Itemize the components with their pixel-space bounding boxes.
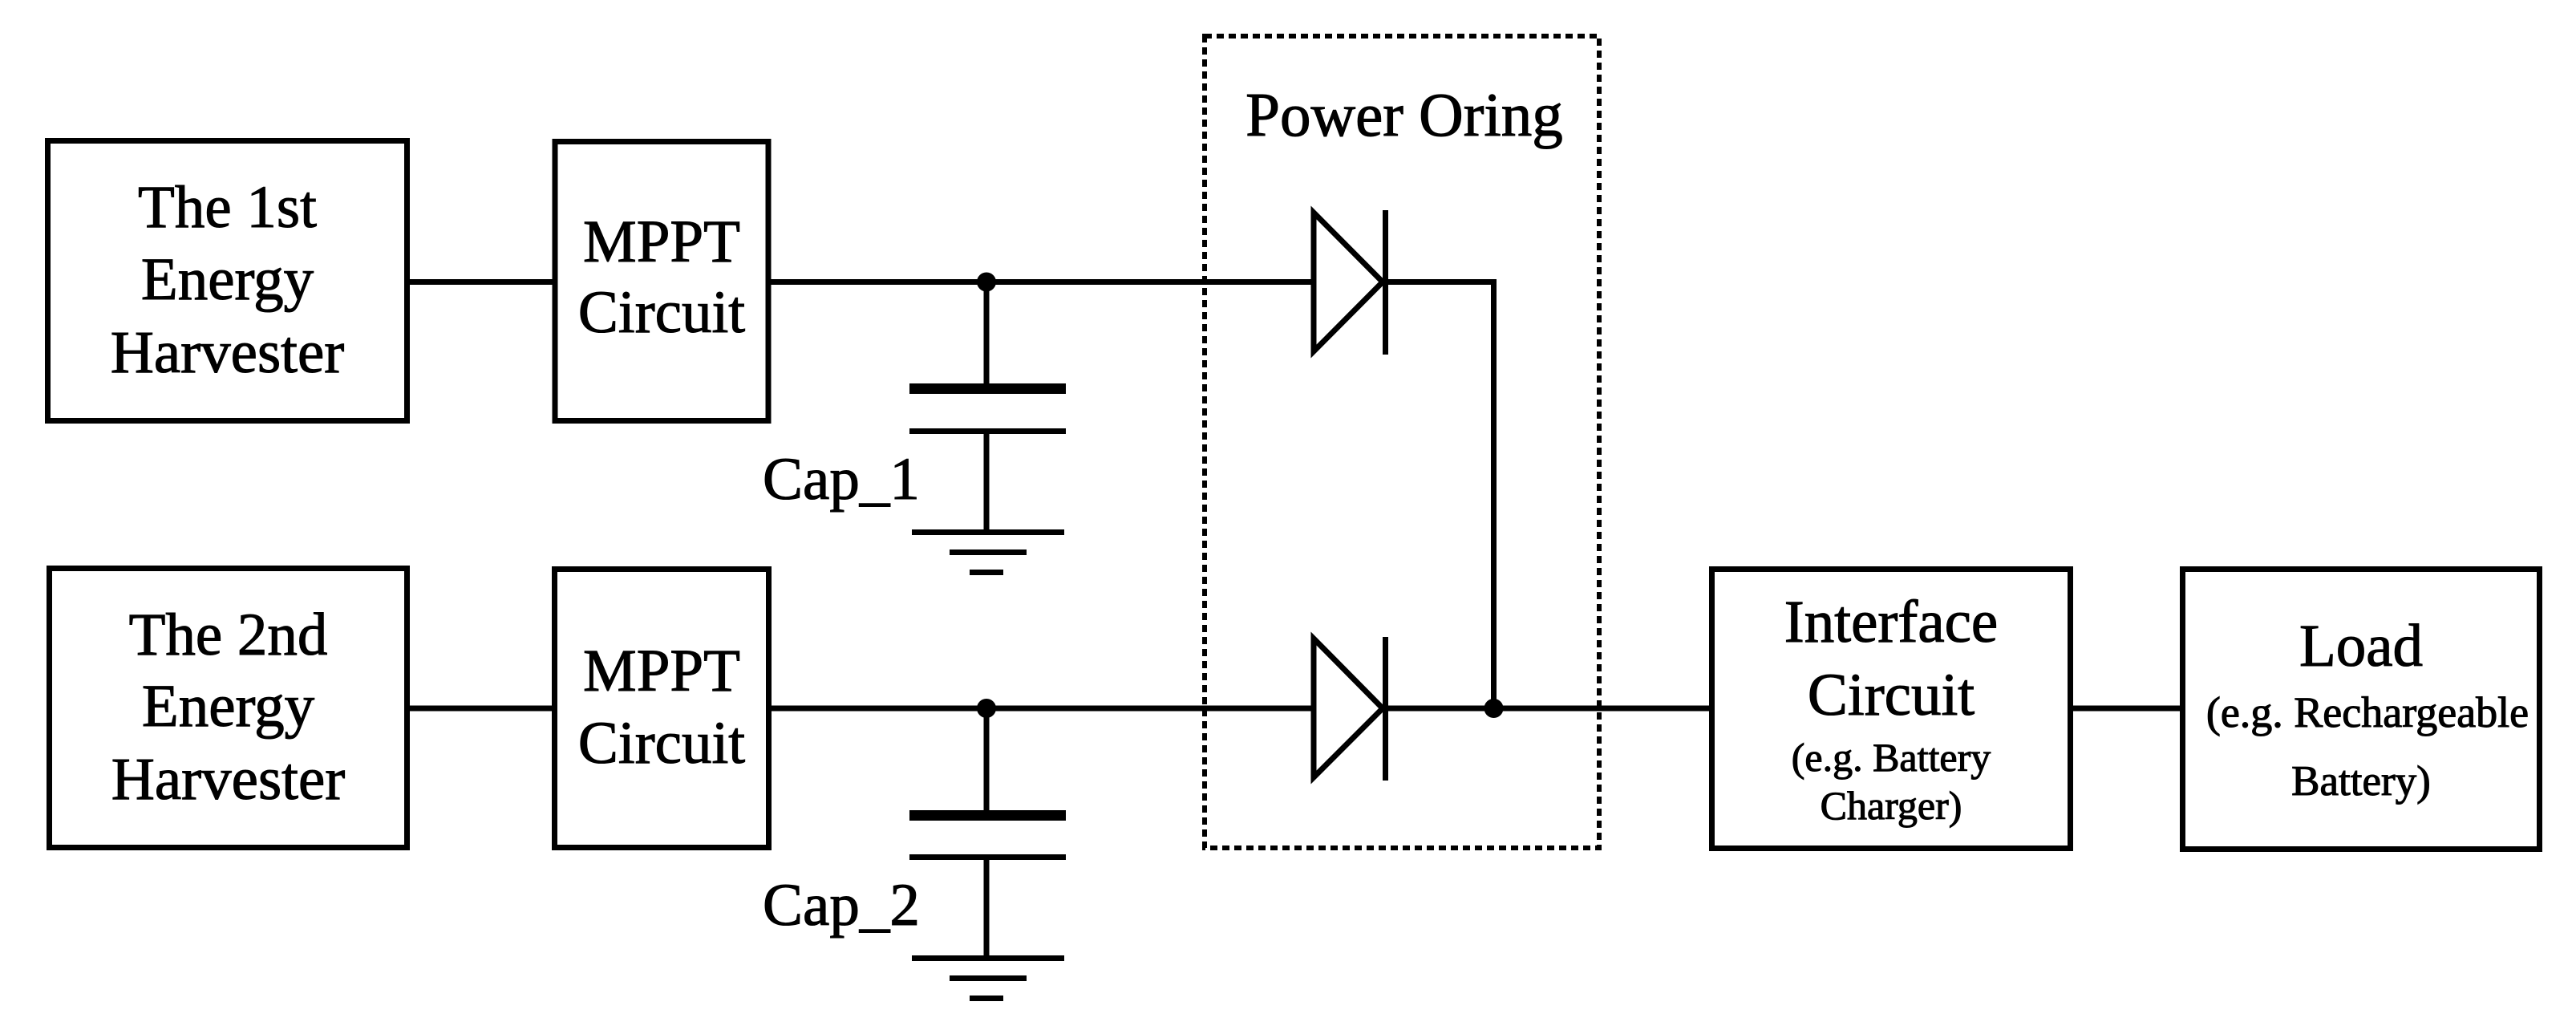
svg-text:The 1st: The 1st (138, 174, 317, 241)
node N2 junction dot (977, 699, 996, 718)
svg-text:Circuit: Circuit (578, 710, 745, 777)
diode D1 (1314, 210, 1386, 355)
block: The 2nd Energy Harvester (50, 569, 407, 848)
block: MPPT Circuit (2nd) (555, 570, 769, 848)
block: MPPT Circuit (1st) (555, 142, 768, 421)
wire: node N2 to diode D2 anode (986, 706, 1316, 712)
wire: MPPT1 output to node N1 (768, 279, 986, 285)
svg-text:Load: Load (2299, 613, 2423, 679)
svg-text:Cap_2: Cap_2 (763, 872, 920, 939)
wire: diode D2 cathode to node N3 (1385, 706, 1494, 712)
ground (Cap_2) (912, 959, 1064, 999)
value label Cap_2 (763, 872, 920, 939)
ground (Cap_1) (912, 533, 1064, 573)
svg-text:MPPT: MPPT (583, 638, 740, 704)
wire: node N3 to Interface Circuit input (1494, 706, 1712, 712)
dashed region: Power Oring (1205, 36, 1599, 848)
svg-text:Energy: Energy (141, 246, 314, 313)
node N1 junction dot (977, 273, 996, 292)
svg-text:Harvester: Harvester (111, 319, 345, 386)
wire: node N1 down to Cap_1 top plate (984, 282, 990, 386)
wire: MPPT2 output to node N2 (768, 706, 986, 712)
svg-text:Power Oring: Power Oring (1245, 80, 1563, 149)
svg-text:(e.g. Battery: (e.g. Battery (1792, 735, 1991, 780)
wire: Interface Circuit output to Load (2071, 706, 2185, 712)
block: Load (e.g. Rechargeable Battery) (2183, 570, 2540, 850)
svg-text:Battery): Battery) (2291, 758, 2431, 805)
svg-text:Energy: Energy (142, 673, 315, 740)
capacitor Cap_2 (909, 810, 1066, 958)
svg-text:The 2nd: The 2nd (129, 602, 328, 668)
svg-text:Cap_1: Cap_1 (763, 446, 920, 513)
wire: node N2 down to Cap_2 top plate (984, 708, 990, 812)
wire: harvester1 output to MPPT1 input (407, 279, 557, 285)
svg-text:Harvester: Harvester (111, 746, 346, 813)
svg-text:Charger): Charger) (1821, 783, 1962, 828)
block: Interface Circuit (e.g. Battery Charger) (1712, 570, 2071, 849)
svg-text:MPPT: MPPT (583, 209, 740, 275)
svg-text:Circuit: Circuit (578, 279, 745, 346)
diode D2 (1314, 637, 1386, 781)
wire: harvester2 output to MPPT2 input (407, 706, 557, 712)
capacitor Cap_1 (909, 383, 1066, 532)
node N3 junction dot (1484, 699, 1504, 718)
value label Cap_1 (763, 446, 920, 513)
wire: diode D1 cathode to vertical link (1385, 282, 1494, 709)
wire: node N1 to diode D1 anode (986, 279, 1316, 285)
block: The 1st Energy Harvester (48, 141, 407, 421)
svg-text:(e.g. Rechargeable: (e.g. Rechargeable (2206, 688, 2529, 736)
svg-text:Interface: Interface (1784, 589, 1998, 655)
svg-text:Circuit: Circuit (1808, 662, 1975, 728)
